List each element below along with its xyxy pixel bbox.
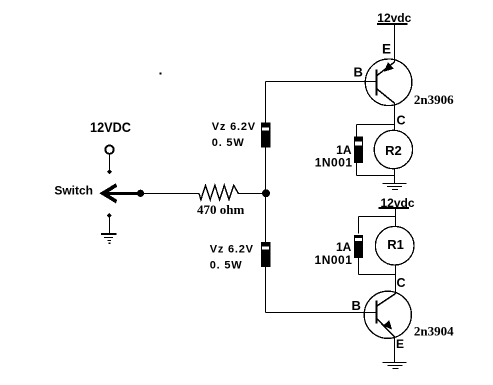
- svg-text:Vz 6.2V: Vz 6.2V: [212, 121, 256, 133]
- svg-text:E: E: [382, 41, 391, 56]
- svg-text:1A: 1A: [336, 240, 352, 254]
- svg-text:E: E: [396, 337, 404, 351]
- svg-text:470 ohm: 470 ohm: [197, 202, 244, 217]
- svg-text:2n3904: 2n3904: [414, 323, 454, 338]
- svg-text:0. 5W: 0. 5W: [212, 137, 245, 149]
- svg-text:R1: R1: [387, 237, 404, 252]
- svg-text:C: C: [396, 276, 405, 290]
- svg-text:R2: R2: [385, 143, 402, 158]
- svg-text:B: B: [352, 298, 361, 313]
- svg-text:1N001: 1N001: [315, 155, 353, 169]
- svg-text:C: C: [396, 114, 405, 128]
- svg-text:2n3906: 2n3906: [414, 92, 454, 107]
- svg-text:Vz 6.2V: Vz 6.2V: [210, 243, 254, 255]
- svg-text:Switch: Switch: [54, 184, 93, 198]
- svg-text:B: B: [354, 64, 363, 79]
- svg-text:0. 5W: 0. 5W: [210, 260, 243, 272]
- svg-text:12VDC: 12VDC: [90, 119, 131, 135]
- svg-text:1N001: 1N001: [315, 253, 353, 267]
